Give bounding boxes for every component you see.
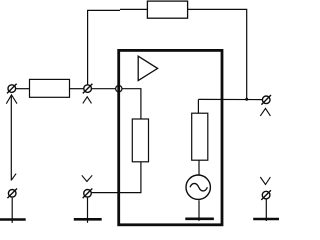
wire ro to source V1 — [198, 160, 200, 174]
junction dot at feedback/output — [245, 98, 248, 101]
AC controlled source V1 (circle with sine) — [186, 175, 210, 199]
amplifier block U1 (two-port box) — [119, 50, 222, 224]
resistor R2 (feedback resistor) — [147, 1, 187, 18]
terminal P1 (input, circle with slash) — [7, 84, 17, 94]
lead to ground-left — [11, 198, 13, 223]
wire R1 to node A — [70, 88, 84, 90]
wire P1 to R1 — [16, 88, 30, 90]
resistor ri (input resistance inside U1) — [132, 119, 148, 162]
ground symbol left — [0, 218, 26, 221]
U1 input pin node circle on box edge — [116, 86, 122, 92]
wire node A to U1 input pin — [92, 88, 115, 90]
wire R2 to output corner — [188, 9, 247, 99]
lead to ground-right — [265, 199, 267, 221]
input voltage arrow u1 (shaft) — [10, 95, 12, 180]
wire node to input resistance ri — [123, 89, 141, 119]
wire V1 to internal ground — [198, 200, 200, 221]
ground symbol mid — [74, 218, 102, 221]
terminal P2 (output, circle with slash) — [261, 95, 271, 105]
input voltage arrowhead — [6, 95, 17, 104]
pin marker v above mid ground terminal — [82, 175, 92, 181]
terminal ground-mid (circle with slash) — [83, 189, 93, 199]
resistor R1 (series input resistor) — [30, 79, 70, 97]
ground symbol right — [253, 218, 280, 221]
lead to ground-mid — [87, 198, 89, 223]
op-amp triangle symbol inside U1 — [138, 56, 157, 80]
terminal ground-right (circle with slash) — [261, 190, 271, 200]
internal ground bar — [185, 218, 214, 221]
terminal node A (circle with slash) — [83, 84, 93, 94]
wire ri bottom to box edge — [92, 162, 141, 193]
pin marker v above right ground terminal — [260, 177, 270, 185]
resistor ro (output resistance inside U1) — [192, 113, 208, 160]
arrow tail tick — [11, 174, 16, 181]
terminal ground-left (circle with slash) — [7, 189, 17, 199]
feedback wire jog segment — [120, 8, 147, 10]
wire down to ro — [197, 99, 199, 113]
pin marker caret below P2 — [260, 108, 270, 116]
output wire ro top to terminal P2 — [198, 98, 262, 100]
feedback wire node A up and across — [88, 10, 120, 85]
pin marker caret below node A — [83, 97, 92, 104]
